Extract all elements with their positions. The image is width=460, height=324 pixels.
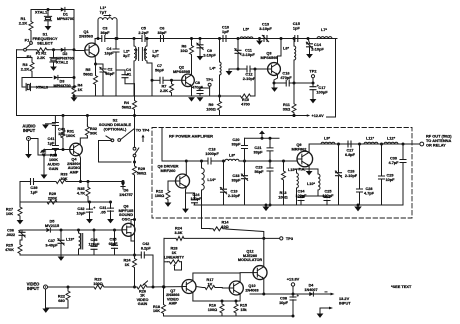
capacitor C36b 120pF — [93, 229, 96, 232]
svg-text:L4*: L4* — [209, 66, 216, 71]
wire Q2 collector to rail — [191, 58, 193, 75]
wire crystal-bank right bus — [73, 10, 75, 84]
ground C8 — [197, 97, 204, 101]
capacitor C38 — [292, 294, 294, 297]
svg-text:4.7K: 4.7K — [77, 191, 85, 196]
ground C40 tap — [46, 123, 56, 125]
wire XTAL3 left leg — [22, 78, 32, 88]
svg-text:Q10: Q10 — [248, 284, 255, 288]
svg-text:560Ω: 560Ω — [122, 105, 132, 110]
FET Q6 — [122, 223, 135, 236]
connector audio input — [27, 137, 31, 141]
svg-text:33pF: 33pF — [231, 142, 241, 147]
resistor R3 — [30, 58, 34, 77]
node Q3 emitter — [273, 82, 276, 85]
wire Q10 emitter — [239, 294, 241, 301]
svg-text:2.2K: 2.2K — [37, 55, 45, 60]
inductor L12 — [384, 142, 398, 144]
resistor R4b 560 — [134, 84, 136, 99]
svg-text:4700: 4700 — [241, 102, 250, 107]
node C14 rail — [307, 37, 310, 40]
wire R3 to D3 row — [32, 76, 52, 78]
inductor L14 — [200, 160, 203, 163]
resistor R24 3.3K series — [176, 236, 184, 240]
svg-text:33Ω: 33Ω — [283, 107, 290, 112]
node C9 rail — [199, 37, 202, 40]
ground PA bottom — [357, 204, 360, 207]
capacitor C15 series — [295, 36, 298, 42]
ground C17 — [310, 99, 317, 103]
svg-text:100Ω: 100Ω — [93, 281, 103, 286]
wire audio line — [20, 181, 31, 183]
wire input ground drop — [45, 289, 47, 308]
wire R22 to input ground — [46, 304, 69, 308]
svg-text:36pF: 36pF — [100, 30, 110, 35]
svg-text:C8: C8 — [195, 81, 200, 85]
resistor R27 — [19, 202, 21, 206]
wire Q3 base row — [229, 68, 247, 70]
capacitor C3 series — [102, 38, 104, 40]
svg-text:16pF: 16pF — [104, 51, 114, 56]
ground audio input — [28, 141, 30, 155]
inductor L1 — [97, 20, 99, 39]
wire Q8 collector — [185, 161, 187, 175]
node Q8 collector — [185, 160, 188, 163]
capacitor C18 series — [186, 160, 207, 162]
svg-text:220K: 220K — [48, 196, 57, 201]
node XTAL2 tap — [52, 48, 55, 51]
capacitor C28 — [359, 144, 361, 188]
svg-text:1K: 1K — [125, 263, 130, 267]
wire R13 bottom — [283, 190, 285, 205]
test point TP3 — [280, 237, 283, 240]
switch S2 lower contacts — [133, 147, 136, 150]
wire Q8 base — [168, 180, 176, 182]
capacitor C21 — [269, 138, 271, 147]
resistor R5 — [94, 64, 98, 96]
ground bank bus — [73, 95, 76, 98]
wire ground rail bottom — [164, 315, 294, 317]
varactor diode D5 — [46, 228, 50, 232]
wire TP1 to bus — [209, 86, 211, 96]
svg-text:MPS6595: MPS6595 — [173, 69, 191, 74]
svg-text:LINEARITY: LINEARITY — [164, 256, 185, 260]
wire Q8 emitter — [185, 187, 188, 209]
core lines L13 — [81, 234, 83, 250]
svg-text:560Ω: 560Ω — [83, 72, 93, 77]
wire audio input — [31, 139, 56, 156]
svg-text:R15: R15 — [240, 304, 247, 308]
resistor R1 — [29, 10, 33, 43]
svg-text:1000pF: 1000pF — [205, 151, 219, 156]
svg-text:100pF: 100pF — [191, 197, 203, 201]
switch S1 contact F1 — [30, 42, 33, 45]
svg-text:C35: C35 — [110, 238, 117, 242]
resistor R32 — [86, 114, 89, 117]
svg-text:R25: R25 — [6, 244, 13, 248]
dashed box RF power amplifier — [152, 128, 412, 219]
svg-text:L10*: L10* — [307, 182, 316, 186]
svg-text:R14: R14 — [222, 221, 230, 225]
capacitor C26 trimmer — [338, 144, 340, 172]
connector video input — [44, 285, 48, 289]
wire Q6 source — [131, 236, 135, 241]
svg-text:C28: C28 — [366, 187, 373, 191]
capacitor C42 series — [141, 252, 144, 258]
svg-text:2N3563: 2N3563 — [79, 34, 94, 39]
resistor R23 series — [91, 285, 107, 289]
svg-text:L14*: L14* — [207, 177, 216, 182]
wire sound output bus — [20, 254, 141, 256]
wire Q12 emitter — [263, 279, 265, 294]
node bus-xtal3 rows — [73, 76, 76, 79]
wire R30 base tap — [44, 149, 55, 151]
resistor R16 — [221, 300, 224, 303]
wire Q9 emitter ground — [308, 166, 310, 171]
svg-text:C36: C36 — [91, 238, 98, 242]
capacitor C4 — [115, 37, 118, 40]
svg-text:30K: 30K — [61, 177, 68, 181]
svg-text:C27: C27 — [347, 149, 354, 153]
svg-text:680: 680 — [58, 298, 65, 303]
wire rail end to corner riser — [327, 39, 336, 118]
svg-text:C34: C34 — [298, 190, 306, 194]
wire row A from L14 — [202, 228, 211, 230]
svg-text:1pF: 1pF — [293, 26, 301, 31]
resistor R31 — [62, 114, 65, 117]
capacitor C39 series — [31, 179, 34, 185]
wire tank rail — [20, 229, 46, 231]
wire R28 to video line — [164, 261, 168, 263]
wire driver input — [161, 128, 163, 161]
svg-text:INPUT: INPUT — [23, 128, 36, 133]
switch S1 blade — [26, 44, 31, 48]
svg-text:R33: R33 — [61, 173, 68, 177]
wire lower audio bus — [20, 182, 111, 203]
capacitor C33 trimmer — [244, 161, 246, 175]
ground C14 — [306, 54, 313, 58]
ground 13.2V — [317, 314, 324, 318]
capacitor C40 — [54, 116, 56, 123]
svg-text:+12.6V: +12.6V — [312, 114, 325, 118]
resistor R2 — [36, 48, 48, 52]
wire Q1 emitter leg — [94, 56, 96, 66]
svg-text:MPS6595: MPS6595 — [260, 55, 278, 60]
node Q12 emitter rail — [262, 293, 265, 296]
resistor R18 — [162, 285, 165, 288]
svg-text:MRF862: MRF862 — [292, 147, 308, 152]
svg-text:10Ω: 10Ω — [180, 48, 187, 53]
capacitor C32 — [88, 201, 91, 204]
svg-text:2-10pF: 2-10pF — [345, 174, 358, 178]
capacitor C25 100pF — [318, 195, 327, 197]
svg-text:C26: C26 — [348, 170, 355, 174]
svg-text:C25: C25 — [325, 190, 332, 194]
resistor R7 — [170, 80, 174, 96]
wire row B TP3 — [164, 237, 176, 239]
svg-text:470pF: 470pF — [192, 86, 204, 90]
wire row F3 — [17, 57, 33, 59]
transistor Q8 driver — [176, 174, 190, 188]
svg-text:4.7pF: 4.7pF — [364, 192, 375, 196]
svg-text:L13*: L13* — [66, 237, 75, 242]
capacitor C7 series — [160, 77, 163, 83]
svg-text:TP3: TP3 — [286, 236, 294, 241]
diode D3 — [54, 75, 58, 79]
inductor L13 — [77, 229, 80, 232]
wire Q6 drain — [131, 220, 135, 224]
capacitor C35 68pF — [113, 229, 116, 232]
diode D4 — [309, 292, 313, 296]
svg-text:470K: 470K — [5, 248, 14, 252]
svg-text:100Ω: 100Ω — [208, 308, 217, 312]
svg-text:GAIN: GAIN — [49, 167, 59, 171]
resistor R24b 1K — [134, 255, 136, 257]
transistor Q1 — [85, 43, 99, 57]
capacitor C29 — [381, 144, 383, 175]
node C30 tap — [402, 143, 405, 146]
wire Q3 emitter — [274, 74, 278, 87]
svg-text:3.3K: 3.3K — [174, 231, 182, 235]
capacitor C34 100pF — [301, 195, 318, 197]
svg-text:L8*: L8* — [229, 153, 236, 158]
svg-text:2.2K: 2.2K — [160, 88, 168, 93]
wire select row F2 — [17, 49, 24, 51]
capacitor C11 trimmer — [237, 39, 239, 51]
transformer core lines — [139, 48, 143, 61]
node tank left — [133, 37, 136, 40]
svg-text:2-10pF: 2-10pF — [243, 76, 256, 81]
wire base line — [177, 160, 187, 162]
crystal XTAL2 — [53, 50, 55, 57]
wire Q7 collector — [193, 273, 240, 281]
svg-text:10pF: 10pF — [386, 178, 396, 182]
capacitor C41 — [52, 146, 58, 149]
svg-text:INPUT: INPUT — [27, 286, 40, 291]
resistor R11 — [293, 83, 295, 101]
wire main RF rail — [95, 38, 337, 40]
resistor R15 — [235, 300, 238, 303]
node tank right — [146, 37, 149, 40]
arrow L2 tuning — [136, 50, 138, 59]
svg-text:XTAL1: XTAL1 — [35, 10, 48, 15]
ground Q2 — [188, 97, 195, 101]
inductor L4 — [220, 62, 222, 75]
svg-text:(OPTIONAL): (OPTIONAL) — [104, 126, 127, 131]
inductor L6 — [293, 37, 296, 40]
capacitor C17 — [312, 82, 315, 85]
svg-text:2.2K: 2.2K — [21, 67, 30, 72]
resistor R29b 560 — [133, 162, 137, 179]
resistor R25 — [18, 243, 22, 255]
transistor Q4 audio amp — [70, 143, 83, 156]
svg-text:+: + — [93, 206, 95, 210]
svg-text:L12*: L12* — [387, 136, 396, 141]
svg-text:100μF: 100μF — [316, 90, 328, 95]
svg-text:33pF: 33pF — [157, 30, 167, 35]
svg-text:.0022: .0022 — [6, 233, 15, 237]
ground PA bottom left — [265, 204, 268, 207]
svg-text:L11*: L11* — [366, 136, 374, 141]
node TP3 row — [262, 237, 265, 240]
wire R28 wiper loop — [175, 262, 182, 270]
svg-text:C19: C19 — [231, 190, 238, 194]
node R4b rail crossing — [133, 114, 136, 117]
node Q2 collector rail — [190, 37, 193, 40]
svg-text:2.2pF: 2.2pF — [138, 30, 149, 35]
resistor R4 — [72, 84, 76, 97]
svg-text:1K: 1K — [78, 87, 83, 92]
node L1 right — [116, 37, 119, 40]
capacitor C10 series — [223, 36, 226, 42]
svg-text:C36: C36 — [7, 229, 14, 233]
svg-text:C42: C42 — [142, 242, 149, 246]
wire L8 to Q9 — [239, 160, 297, 162]
wire PA output rail — [311, 143, 420, 145]
svg-text:1N4007: 1N4007 — [304, 288, 317, 292]
node L3 base tap — [151, 79, 154, 82]
node R7 tap — [170, 79, 173, 82]
resistor R10 series — [241, 94, 251, 98]
node Q1 emitter — [94, 63, 97, 66]
ground video input — [42, 309, 49, 313]
svg-text:+: + — [297, 294, 299, 298]
svg-text:AMP: AMP — [70, 169, 79, 174]
test point TP2 — [312, 78, 314, 83]
switch S2 upper — [121, 129, 135, 140]
diode D1 — [61, 7, 65, 11]
svg-text:1pF: 1pF — [222, 29, 230, 34]
capacitor C2 trimmer — [102, 64, 104, 68]
svg-text:2-10pF: 2-10pF — [203, 53, 216, 58]
node C11 rail — [237, 37, 240, 40]
wire Q9 emitter to L15 — [297, 169, 310, 173]
wire Q3 collector — [278, 39, 282, 64]
wire L14 drop below box — [201, 205, 203, 229]
inductor L10 — [309, 168, 318, 170]
capacitor C19 trimmer — [222, 160, 225, 163]
resistor R14 series — [210, 227, 226, 231]
svg-text:MV2115: MV2115 — [45, 223, 60, 228]
svg-text:8.2pF: 8.2pF — [141, 247, 152, 251]
capacitor C31 — [109, 201, 112, 204]
arrow L3 tuning — [144, 50, 146, 59]
arrow TO TP4 — [142, 137, 144, 142]
svg-text:470pF: 470pF — [280, 75, 292, 80]
zener diode D6 — [122, 180, 125, 183]
connector RF out — [420, 142, 424, 146]
ground tank — [60, 255, 62, 257]
svg-text:OSC: OSC — [122, 216, 131, 221]
capacitor C20 — [244, 149, 246, 162]
wire Q4 emitter — [80, 155, 81, 182]
node XTAL1 tap — [47, 8, 50, 11]
capacitor C9 trimmer — [199, 39, 201, 45]
svg-text:1K: 1K — [172, 251, 177, 255]
svg-text:MRF260: MRF260 — [161, 168, 176, 173]
svg-text:100pF: 100pF — [323, 194, 335, 198]
svg-text:10μF: 10μF — [279, 301, 289, 305]
transistor Q3 — [268, 63, 281, 76]
resistor R17 series — [203, 286, 217, 290]
node R8 rail — [218, 37, 221, 40]
capacitor C16 series — [286, 80, 289, 86]
svg-text:SELECT: SELECT — [37, 40, 53, 45]
wire ground bus — [74, 95, 241, 97]
wire R17 to Q10 base — [217, 287, 229, 290]
wire R32 to Q4 collector — [80, 138, 87, 144]
node C42 drop — [152, 286, 155, 289]
wire video line to Q7 — [107, 286, 137, 288]
wire 13.8V rail — [250, 293, 331, 295]
transistor Q12 modulator — [253, 266, 267, 280]
wire L3 to Q2 base — [152, 79, 160, 81]
svg-text:L9*: L9* — [324, 136, 331, 141]
svg-text:100Ω: 100Ω — [155, 193, 165, 198]
svg-text:L5*: L5* — [243, 27, 250, 32]
wire +12.6V rail — [17, 115, 308, 117]
svg-text:56pF: 56pF — [155, 68, 165, 73]
crystal XTAL3 — [22, 86, 25, 88]
svg-text:15k: 15k — [240, 308, 247, 312]
svg-text:C41: C41 — [48, 137, 55, 141]
resistor R22 — [67, 286, 70, 289]
resistor R12 — [167, 181, 169, 188]
switch S2 blade — [106, 136, 112, 140]
node Q4 emitter join — [79, 180, 82, 183]
switch S2 lower blade — [135, 148, 139, 154]
capacitor C5 series — [142, 36, 144, 41]
capacitor C12 series — [247, 66, 250, 72]
svg-text:2N4063: 2N4063 — [245, 289, 258, 293]
capacitor C23 — [269, 161, 271, 167]
svg-text:33pF: 33pF — [253, 150, 263, 155]
wire video input line — [48, 286, 92, 288]
node Q3 collector rail — [280, 37, 283, 40]
svg-text:MODULATOR: MODULATOR — [238, 258, 263, 262]
node C28 tap — [358, 143, 361, 146]
svg-text:2-10pF: 2-10pF — [242, 52, 255, 57]
node L6 join — [293, 82, 296, 85]
svg-text:AMP: AMP — [169, 302, 178, 306]
svg-text:120pF: 120pF — [89, 243, 101, 247]
svg-text:AUDIO: AUDIO — [47, 162, 59, 166]
svg-text:R24: R24 — [124, 259, 132, 263]
node C26 tap — [337, 143, 340, 146]
connector 13.8V — [291, 283, 294, 286]
ground C9 — [197, 56, 204, 60]
wire XTAL3 row — [35, 86, 74, 88]
capacitor C4b .01 — [122, 75, 128, 78]
svg-text:1K: 1K — [208, 282, 213, 287]
node C4b top — [116, 70, 125, 75]
svg-text:100pF: 100pF — [296, 194, 308, 198]
wire Q7 emitter — [192, 292, 194, 301]
svg-text:1μF: 1μF — [48, 142, 55, 146]
svg-text:GAIN: GAIN — [138, 302, 148, 306]
wire L4 feed — [219, 39, 221, 59]
wire S2 loop — [99, 141, 132, 163]
inductor L5 — [240, 37, 253, 39]
svg-text:C38: C38 — [280, 297, 287, 301]
svg-text:TP2: TP2 — [309, 69, 317, 74]
capacitor C6 series — [161, 36, 164, 42]
wire Q12 collector — [263, 238, 265, 266]
capacitor C14 trimmer — [308, 39, 310, 44]
svg-text:3-10pF: 3-10pF — [259, 26, 272, 31]
wire D3 to bus — [58, 77, 74, 79]
svg-text:C30: C30 — [390, 157, 397, 161]
